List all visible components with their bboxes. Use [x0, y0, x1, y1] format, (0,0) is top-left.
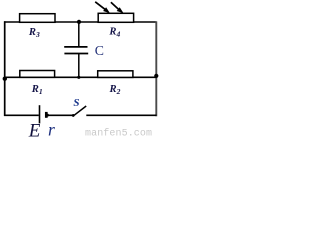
- capacitor C lower plate: [64, 53, 88, 55]
- wire middle horizontal: [4, 76, 157, 78]
- wire bottom right segment: [86, 114, 156, 116]
- battery junction blob: [46, 114, 49, 117]
- capacitor C upper plate: [64, 46, 87, 48]
- wire capacitor lower lead: [78, 54, 80, 78]
- svg-text:R1: R1: [31, 84, 43, 96]
- switch S post dot: [72, 114, 75, 117]
- node capacitor top junction: [77, 20, 81, 24]
- svg-text:R4: R4: [108, 26, 120, 38]
- svg-text:r: r: [48, 119, 55, 137]
- wire capacitor upper lead: [78, 22, 80, 47]
- switch S blade: [73, 106, 86, 116]
- wire bottom left segment: [4, 114, 39, 116]
- resistor R2: [98, 71, 133, 78]
- resistor R1: [20, 71, 55, 78]
- battery E short plate: [45, 112, 48, 118]
- wire left vertical: [4, 21, 6, 116]
- wire bottom battery-to-switch segment: [47, 114, 74, 116]
- svg-text:E: E: [28, 121, 41, 137]
- svg-text:R3: R3: [28, 27, 40, 39]
- light arrow 1 head: [103, 7, 110, 13]
- light arrow 2 head: [117, 7, 124, 13]
- battery E long plate: [39, 105, 41, 123]
- light arrow 1 shaft: [95, 2, 105, 10]
- resistor R3: [20, 14, 55, 23]
- node middle-left junction: [3, 77, 7, 81]
- svg-text:C: C: [95, 43, 104, 58]
- wire top horizontal: [4, 21, 157, 23]
- node middle-right junction: [154, 74, 158, 78]
- svg-text:manfen5.com: manfen5.com: [85, 127, 152, 137]
- wire right vertical: [155, 21, 157, 116]
- svg-text:R2: R2: [109, 84, 121, 96]
- light arrow 2 shaft: [111, 2, 119, 9]
- node capacitor bottom junction: [77, 76, 80, 79]
- resistor R4: [98, 13, 133, 22]
- svg-text:S: S: [73, 97, 79, 109]
